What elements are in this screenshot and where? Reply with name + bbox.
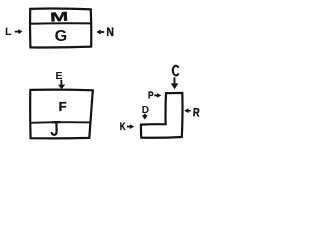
label N xyxy=(106,25,114,39)
arrow R pointing left xyxy=(184,108,191,113)
label G xyxy=(55,28,68,45)
box 2 divider line xyxy=(30,121,90,124)
svg-text:P: P xyxy=(148,90,154,102)
svg-text:L: L xyxy=(5,26,12,38)
label R xyxy=(192,105,200,119)
arrow D pointing down xyxy=(142,114,148,120)
svg-text:K: K xyxy=(120,121,126,133)
label K xyxy=(120,121,126,133)
arrow P pointing right xyxy=(154,93,161,98)
label C xyxy=(173,66,178,76)
svg-text:F: F xyxy=(59,99,67,114)
label M xyxy=(50,9,69,25)
arrow L pointing right xyxy=(15,29,23,34)
label L xyxy=(5,26,12,38)
rectangle box 2 outline xyxy=(30,90,93,139)
label D xyxy=(142,105,149,116)
svg-text:G: G xyxy=(55,28,68,45)
svg-text:R: R xyxy=(192,105,200,119)
label J (hand-drawn with top bar) xyxy=(52,122,60,135)
L-shaped figure outline xyxy=(141,93,183,138)
svg-text:N: N xyxy=(106,25,114,39)
rectangle box 1 outline xyxy=(30,9,91,48)
label P xyxy=(148,90,154,102)
label F xyxy=(59,99,67,114)
arrow E pointing down xyxy=(58,80,65,90)
arrow N pointing left xyxy=(96,30,104,35)
arrow K pointing right xyxy=(127,124,134,129)
label E xyxy=(56,70,63,82)
arrow C pointing down xyxy=(171,77,179,89)
svg-text:M: M xyxy=(50,9,69,25)
box 1 divider line xyxy=(30,22,91,25)
